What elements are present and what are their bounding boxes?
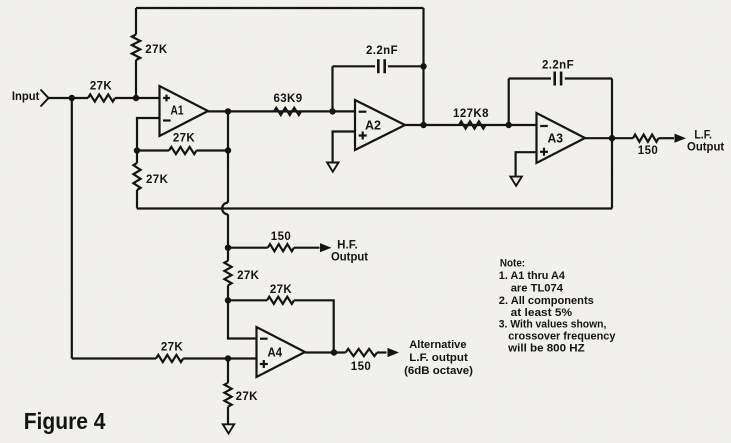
svg-text:Figure 4: Figure 4 <box>24 408 106 434</box>
svg-text:1. A1 thru A4: 1. A1 thru A4 <box>499 270 566 282</box>
svg-text:150: 150 <box>638 145 658 157</box>
svg-text:A1: A1 <box>171 104 184 118</box>
svg-text:Output: Output <box>687 141 724 153</box>
svg-text:27K: 27K <box>146 174 169 186</box>
svg-text:2.2nF: 2.2nF <box>542 60 574 72</box>
svg-text:L.F. output: L.F. output <box>409 352 468 364</box>
svg-text:27K: 27K <box>161 342 184 354</box>
svg-text:2.2nF: 2.2nF <box>366 45 398 57</box>
svg-text:Note:: Note: <box>500 257 525 269</box>
svg-text:2. All components: 2. All components <box>499 295 594 307</box>
svg-text:27K: 27K <box>236 391 259 403</box>
svg-text:3. With values shown,: 3. With values shown, <box>499 319 607 331</box>
svg-text:63K9: 63K9 <box>273 93 302 105</box>
svg-text:27K: 27K <box>237 270 260 282</box>
svg-text:Output: Output <box>331 251 368 263</box>
svg-text:27K: 27K <box>90 81 113 93</box>
svg-text:A3: A3 <box>548 132 564 146</box>
svg-text:Input: Input <box>12 89 40 103</box>
svg-text:27K: 27K <box>173 133 196 145</box>
svg-text:150: 150 <box>271 231 291 243</box>
svg-text:(6dB octave): (6dB octave) <box>404 365 473 377</box>
svg-text:will be 800 HZ: will be 800 HZ <box>507 342 585 354</box>
svg-text:A2: A2 <box>365 119 381 133</box>
svg-text:150: 150 <box>351 361 371 373</box>
svg-text:27K: 27K <box>145 44 168 56</box>
svg-text:27K: 27K <box>270 284 293 296</box>
svg-text:127K8: 127K8 <box>453 108 489 120</box>
svg-text:A4: A4 <box>268 346 283 360</box>
svg-text:Alternative: Alternative <box>409 339 466 351</box>
svg-text:at least 5%: at least 5% <box>511 307 572 319</box>
svg-text:are TL074: are TL074 <box>511 283 564 295</box>
svg-text:L.F.: L.F. <box>694 130 712 142</box>
svg-text:H.F.: H.F. <box>337 239 358 251</box>
svg-text:crossover frequency: crossover frequency <box>508 331 616 343</box>
